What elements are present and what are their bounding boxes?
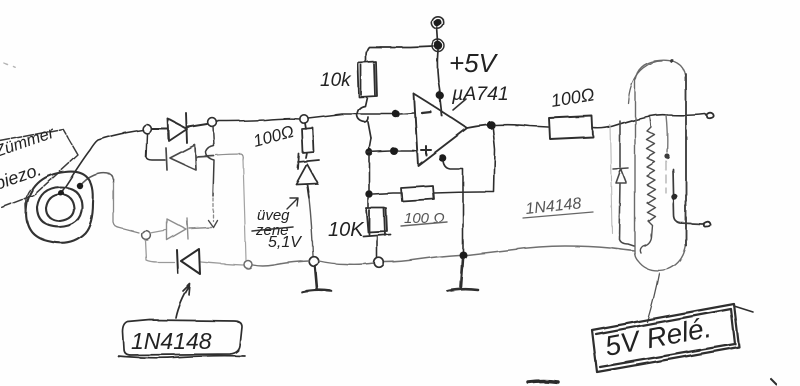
V- pin to ground <box>439 154 447 162</box>
terminal loop bottom right <box>703 222 711 227</box>
arrow from 1N4148 label to D4 <box>176 284 190 318</box>
wire R5 to relay and top terminal <box>593 114 705 128</box>
relay freewheel diode 1N4148 <box>613 121 634 246</box>
feedback wire node F to R4 <box>373 193 400 194</box>
zener lead down to rail <box>309 198 313 256</box>
wire D2 right to corner x243 (passes under hop) <box>216 154 243 160</box>
wire node B to node C <box>216 119 300 121</box>
piezo disc outer <box>26 172 93 243</box>
zener diode ZD 5V1 <box>296 154 319 198</box>
wire +5V to R1 <box>366 46 433 62</box>
leader line relay to label <box>647 273 659 322</box>
R3 lead to rail <box>376 236 378 257</box>
label box 5V Rele <box>592 304 739 372</box>
op-amp U1 uA741 triangle <box>414 94 467 166</box>
resistor R5 100R output <box>549 116 593 139</box>
svg-text:10K: 10K <box>328 219 365 241</box>
minus sign <box>422 112 431 113</box>
wire D4 to node E <box>201 262 243 265</box>
svg-text:10k: 10k <box>320 70 352 91</box>
bottom-right tick <box>770 378 776 384</box>
wire corner x243 down to node E <box>243 160 246 260</box>
ground 1 <box>302 266 331 292</box>
wire node D to D3 <box>150 230 166 233</box>
svg-text:+5V: +5V <box>449 48 499 78</box>
relay outline extra arc top-left <box>628 61 662 103</box>
node circle on rail (zener) <box>309 257 319 267</box>
relay body outline <box>635 60 686 270</box>
wire vertical from node B with hop over D2 wire, arrow end <box>206 126 214 196</box>
bottom rail wire <box>253 246 635 266</box>
relay contact line 1 <box>666 115 667 152</box>
resistor R4 100R feedback <box>401 186 434 201</box>
resistor R3 10K <box>363 208 390 236</box>
divider wire down to node F <box>368 155 370 190</box>
output wire <box>467 125 487 128</box>
relay contact line 2 <box>673 169 702 224</box>
svg-text:5,1V: 5,1V <box>268 234 302 251</box>
resistor R1 10k <box>358 62 377 97</box>
wire piezo terminal 1 to node A <box>61 130 143 193</box>
svg-text:1N4148: 1N4148 <box>131 328 212 354</box>
node circle on rail (R3) <box>374 258 384 268</box>
faint inner vertical line <box>610 125 612 233</box>
diode D2 1N4148 (points left) <box>166 145 214 170</box>
stray mark bottom edge <box>528 381 558 382</box>
node B (terminal circle) <box>208 118 217 127</box>
relay coil <box>640 117 655 253</box>
speck top-left <box>4 63 15 67</box>
piezo terminal dots <box>58 190 64 196</box>
node E (terminal circle) <box>244 261 252 269</box>
piezo disc middle <box>37 187 82 227</box>
node C (terminal circle) <box>300 115 308 123</box>
+5V supply stub <box>434 19 442 27</box>
V+ wire down into op-amp <box>437 50 442 116</box>
label box Zummer piezo <box>0 129 78 208</box>
piezo disc inner <box>46 194 74 221</box>
divider wire to plus input <box>369 138 371 149</box>
dot on relay dome apex <box>670 59 674 63</box>
junction dot minus input <box>392 110 400 118</box>
terminal loop top right <box>706 113 714 119</box>
R1 lead with loop over minus wire <box>357 97 371 138</box>
plus input wire <box>366 151 390 152</box>
feedback wire R4 to output <box>434 129 495 193</box>
resistor R2 100R vertical <box>302 123 314 158</box>
node A (terminal circle) <box>143 125 152 134</box>
node D (terminal circle) <box>142 231 151 240</box>
diode D4 1N4148 (points left) <box>177 249 200 274</box>
wire node A down to D2 anode <box>146 134 165 160</box>
wire node D down to D4 <box>145 240 174 262</box>
label box 1N4148 <box>123 320 242 355</box>
svg-text:µA741: µA741 <box>451 83 509 105</box>
diode D3 1N4148 faint (points right) <box>167 218 211 240</box>
plus sign <box>421 146 431 155</box>
wire piezo terminal 2 path <box>80 173 113 186</box>
diode D1 1N4148 (points right) <box>152 113 207 143</box>
wire node C to op-amp minus input <box>308 114 392 118</box>
